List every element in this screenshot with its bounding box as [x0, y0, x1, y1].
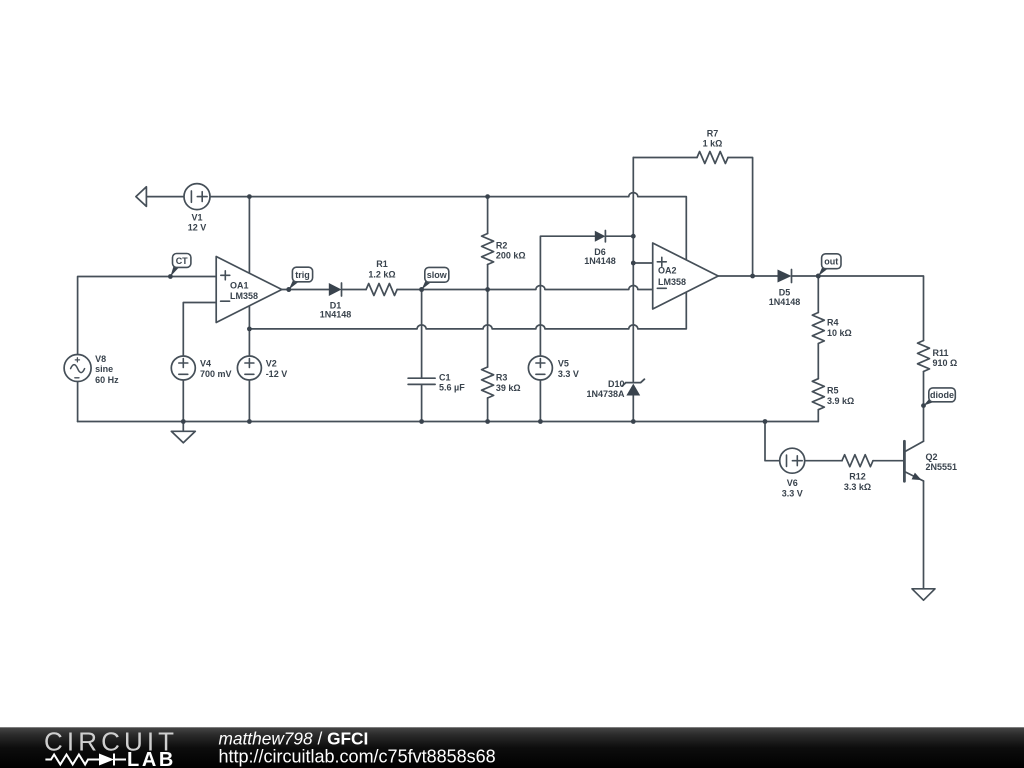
wire V4 bottom to ground rail — [182, 380, 184, 422]
wire D5 to out node and over to R11 column — [792, 276, 924, 341]
svg-text:trig: trig — [295, 270, 310, 280]
svg-text:R3: R3 — [496, 372, 508, 382]
junction ground rail / D10 — [631, 419, 636, 424]
svg-text:out: out — [824, 257, 838, 267]
svg-text:matthew798 / GFCI: matthew798 / GFCI — [219, 728, 369, 748]
wire V4 ground stub — [182, 422, 184, 432]
wire D6 cathode to OA2 plus column — [605, 235, 633, 237]
svg-text:3.3 V: 3.3 V — [782, 488, 803, 498]
wire OA2 output to D5 — [718, 275, 777, 277]
svg-text:R12: R12 — [849, 472, 866, 482]
svg-text:R4: R4 — [827, 318, 839, 328]
svg-text:V4: V4 — [200, 359, 211, 369]
voltage source V4 700mV — [171, 356, 231, 380]
voltage source V2 -12V — [237, 356, 287, 380]
junction ground rail / V4 — [181, 419, 186, 424]
flag diode — [921, 388, 955, 408]
junction OA2 non-inverting input / R7 column — [631, 261, 636, 266]
svg-text:1 kΩ: 1 kΩ — [703, 138, 723, 148]
svg-text:LAB: LAB — [127, 749, 176, 768]
junction ground rail / V2 — [247, 419, 252, 424]
svg-text:R5: R5 — [827, 386, 839, 396]
svg-text:V8: V8 — [95, 354, 106, 364]
svg-text:3.3 V: 3.3 V — [558, 369, 579, 379]
svg-text:1N4148: 1N4148 — [769, 297, 801, 307]
resistor R5 3.9k — [812, 379, 854, 410]
junction ground rail / R3 — [485, 419, 490, 424]
svg-text:D5: D5 — [779, 287, 791, 297]
wire R12 to Q2 base — [873, 460, 904, 462]
svg-text:R11: R11 — [933, 348, 949, 358]
junction signal / C1 top (slow node) — [419, 287, 424, 292]
svg-text:3.3 kΩ: 3.3 kΩ — [844, 482, 871, 492]
svg-text:-12 V: -12 V — [266, 369, 288, 379]
svg-text:910 Ω: 910 Ω — [933, 358, 958, 368]
svg-text:5.6 µF: 5.6 µF — [439, 383, 465, 393]
svg-text:LM358: LM358 — [658, 277, 686, 287]
junction ground rail / C1 — [419, 419, 424, 424]
op-amp OA1 LM358 — [216, 257, 282, 323]
junction OA2 output / R7 right leg — [750, 274, 755, 279]
wire top 12V rail from V1 to right with hop over D10 column, down and back left as lower return wire — [210, 193, 686, 329]
diode D1 1N4148 — [320, 283, 352, 319]
wire R2 column: top rail to signal wire — [487, 197, 489, 290]
flag trig — [286, 267, 312, 292]
junction D6 cathode / R7 column — [631, 234, 636, 239]
wire V8 top to OA1 non-inverting input (CT net) — [78, 277, 217, 356]
svg-text:1.2 kΩ: 1.2 kΩ — [368, 269, 395, 279]
wire OA1 inverting input to V4 top — [183, 303, 216, 357]
wire R11 bottom to Q2 collector — [923, 372, 925, 442]
CircuitLab logo — [44, 727, 178, 768]
zener diode D10 1N4738A — [586, 379, 644, 399]
resistor R11 910 — [918, 341, 958, 372]
svg-text:R7: R7 — [707, 128, 719, 138]
wire V8 bottom to ground rail — [77, 382, 79, 421]
diode D6 1N4148 — [584, 231, 616, 267]
svg-text:V1: V1 — [191, 213, 202, 223]
svg-text:39 kΩ: 39 kΩ — [496, 383, 521, 393]
voltage source V8 sine 60Hz — [64, 354, 119, 385]
voltage source V5 3.3V — [528, 356, 579, 380]
wire Q2 emitter to ground — [923, 481, 925, 589]
wire V1 junction down behind OA1 to V2 top — [248, 197, 250, 356]
wire OA1 output to D1 — [282, 289, 329, 291]
wire V2 bottom to ground rail — [248, 380, 250, 422]
svg-text:10 kΩ: 10 kΩ — [827, 328, 852, 338]
net flag arrow V1 left — [136, 187, 147, 207]
svg-text:V2: V2 — [266, 359, 277, 369]
svg-text:sine: sine — [95, 364, 113, 374]
svg-text:V6: V6 — [787, 478, 798, 488]
junction top rail / V1-V2 column — [247, 194, 252, 199]
junction OA1 output / trig flag — [286, 287, 291, 292]
svg-text:12 V: 12 V — [188, 223, 207, 233]
junction ground rail / V6 branch — [763, 419, 768, 424]
svg-text:slow: slow — [427, 270, 448, 280]
flag slow — [419, 267, 449, 292]
svg-text:R1: R1 — [376, 259, 388, 269]
junction ground rail / V5 — [538, 419, 543, 424]
svg-text:60 Hz: 60 Hz — [95, 375, 119, 385]
capacitor C1 5.6uF — [408, 372, 465, 392]
svg-text:diode: diode — [930, 390, 954, 400]
op-amp OA2 LM358 — [653, 243, 719, 309]
svg-text:CT: CT — [176, 256, 188, 266]
wire V5 top up and right to D6 anode — [540, 236, 594, 356]
wire R7 feedback left leg down through D10 to ground rail — [632, 158, 634, 422]
resistor R7 1k — [697, 128, 728, 163]
svg-text:1N4148: 1N4148 — [584, 256, 616, 266]
current source V1 — [184, 184, 210, 233]
junction out node / D5-R4 — [816, 274, 821, 279]
wire C1 column leads — [421, 290, 423, 422]
svg-text:1N4148: 1N4148 — [320, 309, 352, 319]
svg-text:OA2: OA2 — [658, 266, 677, 276]
resistor R12 3.3k — [842, 455, 873, 492]
wire R3 column: signal wire to ground rail — [487, 290, 489, 422]
flag out — [816, 254, 841, 279]
transistor Q2 2N5551 — [904, 441, 957, 481]
junction top rail / R2 top — [485, 194, 490, 199]
svg-text:200 kΩ: 200 kΩ — [496, 251, 526, 261]
ground under V4 — [171, 431, 195, 443]
svg-text:D10: D10 — [608, 379, 625, 389]
diode D5 1N4148 — [769, 270, 801, 307]
resistor R4 10k — [812, 313, 851, 344]
svg-text:http://circuitlab.com/c75fvt88: http://circuitlab.com/c75fvt8858s68 — [219, 747, 496, 767]
current source V6 3.3V — [780, 448, 805, 498]
svg-text:LM358: LM358 — [230, 291, 258, 301]
svg-text:V5: V5 — [558, 359, 569, 369]
resistor R1 1.2k — [366, 259, 397, 295]
svg-text:C1: C1 — [439, 372, 451, 382]
svg-text:OA1: OA1 — [230, 280, 249, 290]
resistor R3 39k — [482, 367, 521, 398]
svg-text:R2: R2 — [496, 241, 508, 251]
wire R7 leads and right leg down to output node — [633, 158, 752, 277]
wire out node down through R4/R5 to ground rail — [817, 276, 819, 422]
wire ground rail junction down to V6 — [765, 422, 780, 461]
wire OA2 non-inverting input stub — [633, 262, 652, 264]
svg-text:Q2: Q2 — [926, 452, 938, 462]
wire V6 to R12 — [805, 460, 842, 462]
svg-text:2N5551: 2N5551 — [926, 462, 958, 472]
junction signal / R2-R3 — [485, 287, 490, 292]
svg-text:3.9 kΩ: 3.9 kΩ — [827, 396, 854, 406]
junction return wire / V2 column — [247, 327, 252, 332]
wire R1 to OA2 inverting input with hops over V5 and D10 columns — [397, 286, 653, 290]
flag CT — [168, 254, 191, 279]
svg-text:1N4738A: 1N4738A — [586, 389, 625, 399]
ground under Q2 — [912, 589, 935, 600]
ground rail bottom — [78, 421, 819, 423]
wire V5 bottom to ground rail — [539, 380, 541, 422]
wire D1 to R1 — [342, 289, 367, 291]
wire arrow flag to V1 left terminal — [146, 196, 184, 198]
svg-text:700 mV: 700 mV — [200, 369, 232, 379]
resistor R2 200k — [482, 234, 526, 265]
